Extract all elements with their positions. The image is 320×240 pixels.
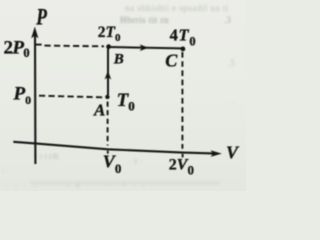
dashed line 2P0 to B: [45, 45, 105, 48]
x axis arrowhead: [211, 150, 222, 157]
arrowhead on A-B pointing up: [105, 71, 112, 80]
dashed line A down to V0: [107, 102, 109, 146]
process line A to B (solid, vertical): [107, 48, 109, 95]
svg-text:V: V: [226, 142, 240, 162]
svg-text:P: P: [35, 5, 47, 30]
arrowhead on B-C pointing right: [140, 44, 149, 51]
svg-text:Hbrris tit rn: Hbrris tit rn: [120, 15, 169, 25]
svg-text:B: B: [113, 52, 124, 68]
x axis (V axis) line: [13, 142, 213, 154]
svg-text:: .: : .: [2, 165, 8, 174]
dashed line C down to 2V0: [181, 52, 183, 149]
svg-text:C: C: [165, 50, 178, 70]
paper background: [0, 0, 246, 191]
point C: [181, 47, 186, 52]
dashed line P0 to A: [39, 96, 104, 98]
faint print-through below axis: [2, 152, 220, 188]
svg-text:na shkishti e spsadil na ti: na shkishti e spsadil na ti: [125, 3, 229, 13]
svg-text:A: A: [93, 100, 105, 119]
tick below x axis at 2V0: [182, 154, 184, 158]
point B: [106, 44, 111, 49]
point A: [105, 95, 109, 99]
y axis (P axis) line: [34, 33, 37, 164]
svg-text:.: .: [232, 96, 234, 106]
svg-text:.3: .3: [224, 15, 231, 25]
tick below x axis at V0: [107, 151, 109, 154]
svg-text:r t i/R: r t i/R: [40, 152, 59, 161]
faint print-through text top right: [120, 3, 235, 106]
tick on P axis at 2P0: [34, 44, 42, 46]
svg-text:. y .: . y .: [130, 156, 142, 165]
process line B to C (solid, horizontal): [108, 47, 182, 48]
svg-text:.5: .5: [228, 58, 235, 68]
y axis arrowhead: [31, 27, 38, 39]
